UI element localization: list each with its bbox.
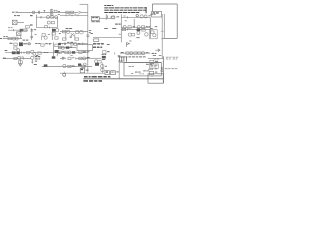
IC U14 cluster — [102, 56, 106, 59]
label text — [22, 56, 24, 59]
label text — [59, 32, 61, 35]
resistor R41 — [18, 61, 22, 64]
wire inner vertical 1 — [161, 14, 163, 59]
IC U7 — [58, 43, 61, 45]
button box S1 — [149, 71, 153, 74]
terminal box TB1 — [105, 71, 109, 75]
transistor Q26 — [31, 56, 34, 59]
transformer T2 — [17, 32, 22, 36]
module box U18 — [150, 30, 158, 39]
label text — [148, 14, 150, 17]
label text — [119, 33, 121, 36]
label text — [62, 56, 65, 59]
node T1 tick — [43, 10, 45, 12]
transistor Q10 — [56, 29, 59, 32]
node AC input label — [12, 12, 14, 13]
diode D2 — [19, 64, 22, 66]
label text — [72, 65, 75, 68]
wire — [121, 29, 150, 31]
label text — [150, 13, 153, 16]
resistor R23 — [142, 29, 145, 32]
transistor Q11 — [66, 30, 69, 33]
label text — [133, 25, 135, 28]
U1 value text — [91, 21, 94, 22]
crystal Y2 — [123, 56, 128, 61]
transistor Q21 — [61, 46, 64, 49]
wire vertical — [56, 17, 58, 28]
tick — [126, 16, 128, 18]
transistor Q4 — [112, 16, 115, 19]
caption row 2 — [83, 80, 88, 82]
tick — [21, 52, 23, 54]
dash — [155, 68, 157, 71]
label text — [14, 15, 16, 16]
resistor R8 — [128, 26, 131, 28]
terminal label LBL2 — [93, 47, 96, 48]
label text in box — [129, 65, 132, 68]
IC U15 — [95, 63, 99, 66]
transistor Q1a — [50, 9, 53, 12]
label text — [116, 15, 119, 18]
transistor Q7 — [12, 37, 15, 40]
transistor Q13 — [137, 31, 140, 34]
wire — [60, 72, 105, 74]
resistor R13 — [8, 37, 11, 39]
label text — [173, 56, 176, 59]
label text — [105, 65, 107, 68]
label dash — [155, 25, 157, 28]
label text right of box — [154, 57, 157, 60]
wire — [93, 36, 121, 38]
resistor R4 — [45, 26, 48, 28]
wire vertical — [149, 17, 151, 38]
wire — [58, 47, 76, 49]
resistor R43 — [68, 65, 71, 67]
wire — [23, 43, 31, 45]
diode D1 — [79, 11, 81, 13]
enclosure box right edge — [176, 4, 178, 38]
label text — [34, 64, 37, 65]
resistor R10 — [142, 26, 145, 28]
resistor R32 — [58, 46, 61, 48]
tick — [23, 52, 25, 54]
transistor Q22 — [68, 51, 71, 54]
resistor R16 — [55, 37, 58, 39]
wire — [120, 52, 150, 54]
wire main vertical bus — [87, 4, 89, 72]
label text in box bottom — [135, 71, 138, 74]
wire — [60, 66, 92, 68]
resistor R25 — [151, 31, 154, 34]
transistor Q2b — [55, 16, 58, 19]
label text — [35, 42, 37, 45]
wire — [3, 58, 31, 60]
label text — [118, 54, 121, 57]
lamp DS2 — [136, 14, 138, 16]
IC U12 — [52, 56, 56, 58]
value label — [58, 10, 60, 13]
resistor R28 — [41, 44, 44, 46]
wire vertical — [51, 9, 53, 15]
transistor Q15 — [128, 33, 131, 36]
label text — [123, 15, 125, 18]
wire — [60, 14, 88, 16]
capacitor C4 — [30, 35, 33, 37]
resistor R42 — [79, 57, 82, 59]
transistor Q7b — [123, 26, 126, 29]
label text — [155, 71, 157, 74]
label text — [146, 51, 149, 54]
label text — [104, 27, 108, 30]
tick — [114, 52, 116, 54]
wire vertical — [56, 53, 58, 56]
label text — [34, 28, 36, 31]
label text — [165, 67, 168, 70]
wire — [58, 43, 88, 45]
label text — [71, 54, 73, 57]
tick marks — [65, 14, 67, 16]
notes end bar — [146, 7, 147, 13]
transistor Q25 — [18, 56, 21, 59]
resistor R22 — [122, 28, 125, 30]
meter box M1 — [148, 74, 164, 83]
resistor R26 — [14, 43, 17, 46]
enclosure box left edge — [151, 4, 153, 12]
wire vertical — [51, 28, 53, 40]
transistor Q5 — [140, 15, 143, 18]
wire — [60, 31, 88, 33]
label text — [69, 13, 71, 16]
wire — [60, 57, 66, 59]
resistor R45 — [98, 61, 101, 63]
label text — [107, 51, 110, 52]
label text — [66, 28, 69, 29]
transistor Q28 — [63, 64, 66, 67]
polarity mark — [161, 67, 164, 70]
value label — [58, 13, 60, 16]
label text — [61, 42, 63, 45]
transistor Q16 — [153, 34, 156, 37]
label text in box — [131, 72, 133, 75]
capacitor C6 on bus — [87, 34, 90, 36]
label text row — [128, 55, 131, 58]
label text — [159, 54, 161, 57]
label text — [121, 51, 124, 54]
notes row 3 — [104, 11, 108, 14]
caption row 1 — [84, 76, 88, 77]
tick — [82, 42, 84, 44]
tick — [13, 29, 15, 31]
wire vertical with arrow — [31, 59, 33, 62]
wire — [121, 27, 150, 29]
label text in M1 — [151, 75, 154, 78]
label text — [3, 35, 5, 38]
label text — [155, 61, 158, 62]
label text small — [143, 69, 146, 72]
resistor R38 — [134, 52, 137, 54]
IC U17 — [137, 29, 141, 32]
wire — [8, 29, 28, 31]
tick marks in box — [140, 73, 142, 76]
fuse F1 — [32, 11, 35, 14]
resistor R17 — [62, 30, 65, 32]
wire vertical — [120, 14, 122, 42]
capacitor C5 — [70, 35, 72, 37]
wire top corner — [80, 3, 88, 5]
label text — [86, 70, 89, 71]
display box DS1 — [124, 63, 161, 76]
transistor Q3 — [47, 21, 50, 24]
resistor R27 — [14, 47, 17, 49]
resistor R34 — [65, 51, 68, 54]
resistor R27b — [27, 51, 30, 53]
ground stub — [0, 38, 2, 39]
IC U16 box — [150, 64, 159, 69]
label text in U10 — [153, 12, 155, 13]
wire vertical — [41, 36, 43, 40]
wire vertical — [101, 63, 103, 74]
transistor Q12 — [80, 30, 84, 34]
wire — [99, 17, 111, 19]
label text — [75, 13, 77, 16]
notes row 1 — [104, 6, 108, 9]
label text — [48, 33, 50, 36]
label text — [87, 50, 90, 53]
transistor Q8 — [15, 37, 18, 40]
wire vertical — [53, 42, 55, 56]
transistor Q24 — [142, 52, 145, 55]
IC U3 — [19, 42, 23, 46]
label text — [166, 56, 169, 59]
resistor R36 — [103, 51, 106, 54]
ground stub — [3, 58, 6, 59]
wire — [37, 27, 58, 29]
resistor R46 — [150, 60, 154, 63]
enclosure box bottom edge — [162, 37, 178, 39]
terminal box TB2 — [111, 71, 116, 75]
tick — [49, 43, 51, 45]
resistor R5 — [26, 26, 30, 28]
wire vertical — [74, 34, 76, 40]
transistor Q17 — [17, 49, 20, 52]
label text — [102, 53, 104, 56]
wire — [119, 61, 161, 63]
label text — [148, 68, 150, 71]
wire vertical — [19, 59, 21, 65]
relay box K2 — [77, 45, 92, 51]
label text — [107, 44, 110, 45]
transistor Q1b — [50, 13, 53, 16]
transistor Q31a — [101, 65, 104, 68]
label text — [44, 51, 46, 54]
wire — [121, 16, 150, 18]
IC U5 — [16, 51, 19, 54]
label text — [67, 41, 70, 44]
wire — [88, 57, 101, 59]
wire — [60, 11, 78, 13]
IC U11 — [44, 64, 48, 66]
wire — [5, 52, 60, 54]
label text — [150, 27, 153, 30]
resistor R39 — [138, 52, 141, 54]
tick — [49, 27, 51, 29]
relay K1 — [20, 29, 23, 32]
U1 label text — [92, 16, 94, 19]
label dark text — [115, 24, 118, 25]
resistor R1 — [66, 11, 69, 13]
label dark text — [83, 51, 86, 52]
wire — [17, 21, 24, 23]
label dark text — [87, 57, 90, 58]
antenna flag — [127, 43, 130, 47]
transistor Q17b — [28, 43, 30, 45]
wire vertical — [118, 62, 120, 78]
label text — [171, 67, 174, 70]
capacitor C7 — [63, 43, 65, 45]
IC U13 — [78, 64, 81, 66]
resistor R35 — [79, 51, 82, 53]
resistor R42b — [68, 57, 71, 59]
label text — [45, 43, 48, 44]
label text — [8, 26, 10, 29]
wire — [148, 58, 163, 60]
label text — [152, 53, 154, 54]
transistor Q29 — [83, 63, 86, 66]
resistor R21 with label — [94, 39, 99, 42]
label text — [23, 40, 26, 41]
transformer T1 core — [12, 20, 17, 24]
IC U8 — [66, 46, 70, 48]
transistor Q14 — [145, 33, 148, 36]
resistor R33 — [58, 51, 61, 53]
wire — [3, 38, 22, 40]
enclosure box top edge — [152, 3, 177, 5]
capacitor C2 — [105, 14, 107, 20]
notes row 2 — [104, 9, 109, 12]
arrow into box — [155, 49, 160, 52]
wire vertical main right — [162, 56, 164, 83]
wire — [42, 66, 60, 68]
resistor R40 — [14, 57, 17, 59]
wire inner vertical 2 — [163, 14, 165, 38]
IC U2 — [52, 29, 56, 32]
label text — [70, 46, 72, 49]
resistor R29 — [55, 44, 58, 47]
label text — [62, 50, 64, 53]
label text rows — [35, 56, 38, 57]
transistor Q19 — [33, 52, 36, 55]
capacitor C3 — [30, 29, 33, 31]
transistor Q27 — [83, 57, 86, 60]
IC U4 — [12, 51, 16, 54]
wire vertical — [65, 33, 67, 40]
wire vertical — [20, 36, 22, 39]
transistor Q6 — [144, 15, 147, 18]
transistor Q18 — [31, 50, 34, 53]
label text — [78, 42, 80, 45]
wire vertical — [31, 28, 33, 40]
label text — [129, 40, 132, 43]
label text — [125, 19, 127, 22]
resistor R0 — [54, 10, 57, 12]
transistor Q20 — [74, 43, 77, 46]
transistor Q30 — [95, 60, 98, 63]
label text — [146, 25, 148, 28]
transistor Q7c — [137, 26, 140, 29]
label box U10 — [152, 11, 162, 17]
resistor R2 — [71, 11, 74, 13]
label text — [153, 54, 156, 57]
resistor R18 — [76, 31, 79, 34]
caption rule — [83, 78, 163, 80]
crystal Y1 — [118, 56, 123, 61]
resistor R31 — [71, 43, 74, 45]
label text — [112, 27, 116, 30]
resistor R15 — [52, 33, 56, 35]
label text — [89, 29, 91, 32]
resistor R14 — [42, 34, 45, 37]
transistor Q2 — [47, 16, 50, 19]
label text — [24, 43, 28, 44]
tick — [74, 57, 76, 59]
transistor Q9 — [44, 36, 47, 39]
label text — [36, 54, 38, 57]
regulator U1 box — [91, 16, 99, 20]
cross tick — [40, 16, 42, 19]
resistor R12 — [24, 29, 27, 31]
resistor R24 — [131, 33, 134, 36]
label text — [35, 33, 37, 36]
resistor R4b — [51, 21, 54, 23]
label text — [5, 50, 8, 51]
wire — [58, 51, 88, 53]
capacitor C1 — [37, 11, 39, 14]
resistor R30 — [38, 52, 41, 54]
label text — [89, 31, 91, 34]
transistor Q23 — [130, 52, 133, 55]
IC U9 — [72, 51, 75, 54]
label text — [10, 43, 13, 44]
notes title line — [104, 4, 106, 7]
lamp LP1 — [63, 72, 65, 74]
wire — [81, 11, 87, 13]
connector stub J2 — [30, 24, 33, 25]
transistor Q31b — [101, 68, 104, 71]
resistor R37 — [126, 52, 129, 54]
wire vertical — [133, 19, 135, 28]
label text — [72, 56, 74, 59]
tick — [23, 57, 25, 59]
wire vertical rail — [36, 15, 38, 28]
resistor R5b — [111, 16, 114, 18]
connector stub J1 — [30, 15, 33, 16]
wire — [76, 57, 88, 59]
connector box J3 — [80, 68, 85, 73]
tick on wire — [161, 30, 164, 32]
resistor R44 — [82, 65, 85, 68]
transformer T3 — [71, 33, 74, 36]
label text in box — [146, 63, 149, 66]
resistor R3 — [51, 16, 54, 18]
resistor R19 — [63, 38, 67, 40]
wire — [17, 11, 60, 13]
label text — [136, 36, 139, 39]
wire — [37, 16, 58, 18]
tick — [127, 28, 129, 30]
connector stub — [91, 33, 93, 34]
terminal label LBL1 — [93, 43, 96, 44]
IC U6 — [55, 50, 59, 53]
